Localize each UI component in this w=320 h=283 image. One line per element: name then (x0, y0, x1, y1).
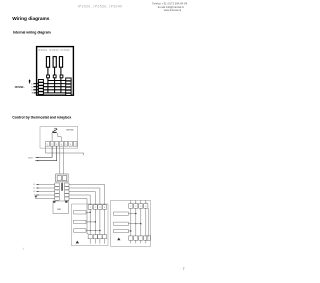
wire terminal3 to 230V N (35, 146, 56, 161)
svg-text:1: 1 (90, 207, 91, 209)
boiler A logo mark (76, 241, 80, 244)
relay contact ladder right column (65, 183, 69, 200)
svg-text:L3: L3 (33, 191, 35, 193)
wire L3 left (36, 191, 55, 193)
wire A bar2 link (86, 221, 95, 223)
boiler B top terminals (129, 204, 148, 209)
relaybox outline RB (53, 201, 69, 214)
wire bus L2 (34, 86, 71, 88)
svg-text:1: 1 (47, 144, 48, 146)
svg-text:2: 2 (135, 206, 136, 208)
heating element E1 (46, 57, 49, 68)
arrow 230V L (36, 157, 38, 158)
svg-text:Wiring diagrams: Wiring diagrams (12, 16, 50, 22)
svg-text:230V~: 230V~ (28, 158, 35, 160)
wire fan 2 (69, 188, 100, 205)
wire A down2 (94, 209, 96, 234)
heating element E2 (53, 57, 56, 68)
svg-text:IP2020, IP2530, IP3040: IP2020, IP2530, IP3040 (78, 5, 123, 9)
wire B stubs below (130, 240, 132, 243)
labels left of relay (33, 184, 36, 197)
wire B down1 (130, 208, 132, 236)
boiler B bottom terminals (129, 236, 151, 240)
wire fan 4 (69, 195, 90, 205)
svg-text:4: 4 (104, 207, 105, 209)
svg-text:L1: L1 (33, 184, 35, 186)
svg-text:TA/H4B: TA/H4B (66, 129, 74, 132)
svg-text:2: 2 (95, 207, 96, 209)
wire fan 3 (69, 192, 95, 206)
wire switch right leg (58, 133, 62, 141)
wire terminal2 to 230V L (35, 146, 52, 157)
svg-text:3: 3 (99, 207, 100, 209)
boiler A top terminals (88, 205, 107, 209)
svg-text:1: 1 (130, 206, 131, 208)
wire L1 left (36, 184, 55, 186)
wire bus top (48, 80, 71, 82)
svg-text:2: 2 (52, 144, 53, 146)
boiler A element bar 1 (74, 211, 86, 214)
relay contact ladder left column (55, 183, 59, 200)
boiler A bottom terminals (88, 235, 107, 239)
svg-text:6: 6 (70, 144, 71, 146)
boiler B logo mark (117, 238, 120, 241)
wire fan 1 (69, 185, 105, 206)
thermostat switch TA (53, 129, 58, 132)
wire B bar1 link (129, 213, 136, 215)
heating element E3 (59, 57, 62, 68)
terminal numbers (47, 144, 76, 146)
wire bus N (34, 92, 71, 94)
wire E3 drop (60, 67, 62, 93)
terminal labels above B (130, 202, 146, 204)
boiler B element bar 1 (114, 212, 129, 215)
relay K1 coil (56, 174, 68, 182)
svg-text:3: 3 (56, 144, 57, 146)
svg-text:IP2020, IP2530, IP3040: IP2020, IP2530, IP3040 (38, 49, 70, 52)
wire PE left with supply arrow (36, 198, 55, 200)
svg-text:L3: L3 (31, 90, 33, 92)
wire E2 drop (54, 67, 56, 93)
wire B right side (148, 208, 150, 236)
svg-text:www.intercal.nl: www.intercal.nl (164, 8, 182, 12)
svg-text:L2: L2 (31, 86, 33, 88)
wire E1 drop (47, 67, 49, 93)
svg-text:4: 4 (61, 144, 62, 146)
wire A bar1 link (86, 211, 90, 213)
boiler A element bar 2 (74, 220, 86, 223)
svg-text:7: 7 (75, 144, 76, 146)
wire A down4 (104, 209, 106, 234)
thermostat box TA/H4B (40, 127, 78, 148)
wire B top stubs (130, 200, 132, 203)
wire fan PE (69, 199, 88, 234)
terminal strip in TA box (46, 141, 77, 146)
svg-text:3: 3 (140, 206, 141, 208)
svg-text:4: 4 (145, 206, 146, 208)
junction terminal on E1 wire (47, 75, 50, 78)
wire B down4 (145, 208, 147, 236)
wire coil feed a (59, 146, 61, 174)
boiler A enclosure (72, 204, 109, 246)
header contact block (152, 2, 188, 12)
terminal block X1 left column (38, 80, 43, 95)
boiler B element bar 3 (114, 229, 129, 232)
boiler B enclosure (111, 200, 151, 246)
junction terminal on E2 wire (53, 75, 56, 78)
svg-text:5: 5 (65, 144, 66, 146)
svg-text:7: 7 (183, 267, 185, 271)
wire A down3 (99, 209, 101, 234)
wire bus L1 (34, 83, 71, 85)
svg-text:L1: L1 (31, 83, 33, 85)
wire B down3 (140, 208, 142, 236)
svg-text:400V3N~: 400V3N~ (15, 86, 26, 89)
arrow 230V N (36, 160, 38, 161)
wire switch left leg (51, 133, 53, 141)
svg-text:L2: L2 (33, 188, 35, 190)
wire N left (36, 194, 55, 196)
relay mechanical link (61, 183, 62, 191)
wire terminal1 to bus (46, 146, 84, 155)
wire B bar2 link (129, 223, 141, 225)
wire B down2 (135, 208, 137, 236)
wire L2 left (36, 187, 55, 189)
wire bus L3 (34, 89, 71, 91)
wire B bar3 link (129, 230, 131, 232)
wire coil feed b (62, 146, 64, 174)
svg-text:Control by thermostat and rela: Control by thermostat and relaybox (12, 115, 71, 119)
wire A stubs below (89, 239, 91, 244)
svg-text:Internal wiring diagram: Internal wiring diagram (13, 30, 51, 34)
boiler B element bar 2 (114, 222, 129, 225)
wire A bar3 link (86, 230, 100, 232)
supply arrow (29, 80, 31, 83)
wire A down1 (89, 209, 91, 234)
boiler A element bar 3 (74, 229, 86, 232)
enclosure box (37, 47, 74, 96)
junction terminal on E3 wire (60, 75, 63, 78)
terminal block X2 right column (66, 78, 71, 95)
